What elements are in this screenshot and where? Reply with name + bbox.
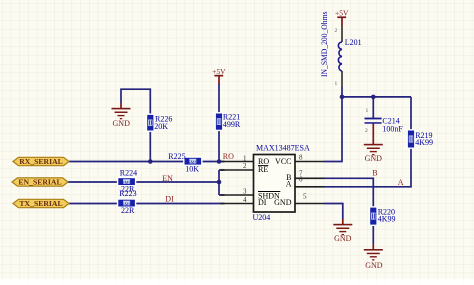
wire R220 gnd stem	[372, 244, 374, 250]
svg-text:EN_SERIAL: EN_SERIAL	[18, 178, 61, 187]
wire VCC net (pin8 up to +5V rail)	[324, 87, 411, 162]
junction node on RX net at R221	[217, 159, 222, 164]
svg-text:GND: GND	[365, 154, 383, 163]
resistor R223 body	[118, 199, 136, 207]
svg-text:DI: DI	[258, 198, 267, 207]
svg-text:4K99: 4K99	[378, 215, 396, 224]
junction node on EN net	[217, 180, 222, 185]
svg-text:GND: GND	[334, 234, 352, 243]
svg-text:+5V: +5V	[212, 67, 226, 76]
svg-text:A: A	[286, 179, 292, 188]
ground GND (pin5)	[333, 224, 352, 243]
svg-text:RO: RO	[223, 152, 234, 161]
wire pin5 gnd stem	[342, 219, 344, 224]
svg-text:10K: 10K	[185, 165, 199, 174]
svg-text:5: 5	[303, 193, 307, 201]
IC U204 MAX13487ESA body	[254, 155, 296, 213]
inductor L201	[338, 26, 342, 87]
svg-text:GND: GND	[365, 261, 383, 270]
bottom edge fade	[0, 279, 474, 285]
svg-text:8: 8	[299, 154, 303, 162]
svg-text:20K: 20K	[154, 122, 168, 131]
svg-text:MAX13487ESA: MAX13487ESA	[256, 143, 310, 152]
svg-text:1: 1	[335, 81, 338, 87]
ground GND (left, R226 branch)	[112, 103, 131, 128]
svg-text:1: 1	[366, 108, 369, 114]
svg-text:RE: RE	[258, 165, 268, 174]
svg-text:2: 2	[335, 28, 338, 34]
svg-text:B: B	[372, 169, 377, 178]
junction node VCC rail at L201	[340, 95, 345, 100]
ground GND (below R220)	[364, 249, 383, 270]
svg-text:R223: R223	[119, 189, 136, 198]
svg-text:+5V: +5V	[335, 9, 349, 18]
svg-text:R225: R225	[168, 152, 185, 161]
capacitor C214	[365, 118, 382, 124]
svg-text:IN_SMD_200_Ohms: IN_SMD_200_Ohms	[320, 12, 329, 78]
op IC U204 pin stubs (pins 1-8)	[221, 162, 325, 204]
svg-text:22R: 22R	[121, 206, 135, 215]
ground GND (below C214)	[364, 144, 383, 163]
wire EN net (port to R224 to pins 2,3)	[68, 170, 225, 195]
svg-text:2: 2	[365, 128, 368, 134]
junction node on RX net at R226	[148, 159, 153, 164]
power port +5V (above R221)	[212, 67, 226, 84]
wire R221 pull-up from +5V	[218, 84, 220, 162]
resistor R220 body	[370, 207, 377, 225]
svg-text:VCC: VCC	[275, 157, 291, 166]
resistor R221 body	[215, 113, 222, 130]
svg-text:3: 3	[243, 188, 247, 196]
svg-text:R224: R224	[120, 169, 137, 178]
resistor R226 body	[147, 114, 154, 131]
svg-text:RX_SERIAL: RX_SERIAL	[19, 157, 63, 166]
wire pin5 to GND	[324, 204, 343, 220]
port TX_SERIAL	[13, 199, 69, 208]
wire RX_SERIAL net (port to R225 to pin1)	[69, 161, 225, 163]
wire cap to ground stem	[372, 124, 374, 145]
power port +5V (above L201)	[335, 9, 349, 26]
port EN_SERIAL	[12, 178, 68, 187]
svg-text:4K99: 4K99	[415, 138, 433, 147]
port RX_SERIAL	[13, 157, 69, 166]
resistor R219 body	[407, 130, 414, 148]
svg-text:TX_SERIAL: TX_SERIAL	[19, 199, 62, 208]
svg-text:GND: GND	[113, 119, 131, 128]
svg-text:U204: U204	[253, 213, 271, 222]
wire A net (pin6 to R219)	[324, 97, 411, 187]
junction node VCC rail at C214	[371, 95, 376, 100]
svg-text:499R: 499R	[223, 120, 241, 129]
svg-text:4: 4	[243, 196, 247, 204]
wire R226 pull branch to GND	[121, 89, 150, 161]
svg-text:GND: GND	[274, 198, 292, 207]
resistor R225 body	[184, 157, 202, 165]
svg-text:2: 2	[243, 162, 247, 170]
svg-text:DI: DI	[165, 195, 174, 204]
svg-text:EN: EN	[162, 174, 173, 183]
resistor R224 body	[118, 178, 136, 186]
wire DI net (port to R223 to pin4)	[69, 203, 225, 205]
svg-text:100nF: 100nF	[382, 125, 403, 134]
wire B net (pin7 to R220 to GND)	[324, 178, 373, 244]
wire C214 branch	[372, 97, 374, 118]
svg-text:A: A	[398, 178, 404, 187]
svg-text:6: 6	[299, 176, 303, 184]
svg-text:L201: L201	[345, 38, 362, 47]
